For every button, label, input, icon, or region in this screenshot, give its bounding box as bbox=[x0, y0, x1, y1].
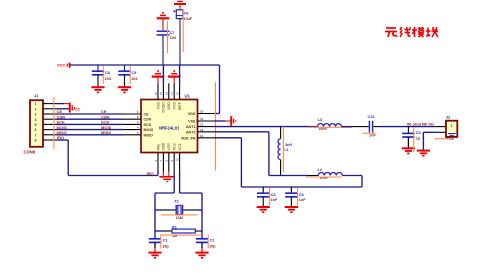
svg-text:1p: 1p bbox=[416, 137, 421, 141]
IC U1 top pin names bbox=[156, 101, 182, 112]
wire XC2 down bbox=[155, 172, 174, 239]
wire junction to L2 bbox=[269, 175, 318, 177]
svg-text:ANT2: ANT2 bbox=[186, 130, 196, 134]
svg-text:1: 1 bbox=[35, 102, 37, 106]
svg-text:VDD_PA: VDD_PA bbox=[181, 136, 196, 140]
IC U1 bottom pins bbox=[158, 153, 180, 172]
power port VCC (top pin VSS) bbox=[152, 71, 165, 83]
svg-text:16: 16 bbox=[175, 92, 179, 96]
svg-text:VDD: VDD bbox=[162, 142, 166, 150]
wire IRQ from connector bbox=[57, 140, 158, 176]
svg-text:R1: R1 bbox=[172, 226, 177, 230]
orange line at L2 bbox=[306, 176, 342, 178]
IC U1 top pins bbox=[158, 83, 180, 99]
svg-text:C8: C8 bbox=[105, 71, 110, 75]
orange line at L3 bbox=[309, 126, 352, 128]
power port VCC (C6) bbox=[174, 1, 186, 4]
capacitor C9 labels bbox=[131, 71, 138, 81]
wire top pin2 to rail bbox=[162, 65, 164, 83]
svg-text:MISO: MISO bbox=[144, 133, 154, 137]
svg-text:VDD: VDD bbox=[167, 102, 171, 110]
crystal Y1 designator bbox=[174, 199, 179, 203]
svg-text:MOSI: MOSI bbox=[144, 128, 153, 132]
svg-text:18: 18 bbox=[165, 92, 169, 96]
svg-text:L2: L2 bbox=[318, 168, 322, 172]
wire pin1 to VCC bbox=[57, 103, 70, 105]
IC U1 right pin names bbox=[181, 112, 196, 140]
wire VCC rail bbox=[70, 65, 220, 114]
capacitor C10 value bbox=[369, 133, 376, 137]
power label VCC (connector) bbox=[72, 107, 81, 112]
IC U1 bottom pin names bbox=[156, 142, 182, 150]
capacitor C2 bbox=[195, 239, 208, 258]
connector J2 designator bbox=[446, 114, 451, 119]
svg-text:VSS: VSS bbox=[173, 101, 177, 109]
svg-text:PCB: PCB bbox=[447, 137, 455, 141]
orange line at L1 bbox=[282, 127, 284, 172]
resistor R1 bbox=[155, 229, 202, 233]
orange line at C6 bbox=[182, 9, 184, 53]
connector J1 pins bbox=[44, 104, 58, 140]
svg-text:XC1: XC1 bbox=[178, 143, 182, 150]
capacitor C8 bbox=[91, 65, 104, 92]
wires connector to chip (CE CSN SCK MOSI MISO) bbox=[57, 114, 123, 135]
IC U1 part name NRF24L01 bbox=[159, 126, 180, 131]
orange line at C5 bbox=[297, 188, 299, 206]
IC U1 pin numbers bbox=[137, 92, 204, 162]
svg-text:J1: J1 bbox=[34, 93, 39, 98]
capacitor C5 bbox=[285, 187, 298, 212]
svg-text:1: 1 bbox=[450, 124, 452, 128]
svg-text:L1: L1 bbox=[284, 148, 288, 152]
title text 无线模块 bbox=[385, 27, 438, 37]
svg-text:IRQ: IRQ bbox=[147, 171, 154, 176]
svg-text:CON8: CON8 bbox=[24, 150, 36, 155]
IC U1 designator bbox=[185, 93, 191, 98]
connector J1 designator bbox=[34, 93, 39, 98]
orange line at C7 bbox=[167, 21, 169, 53]
svg-text:IREF: IREF bbox=[178, 101, 182, 110]
svg-text:DVDD: DVDD bbox=[162, 102, 166, 113]
orange line at C4 bbox=[269, 188, 271, 206]
inductor L3 value bbox=[319, 127, 328, 131]
connector J1 CON8 body bbox=[30, 100, 43, 147]
capacitor C9 bbox=[118, 65, 131, 92]
svg-text:14: 14 bbox=[200, 117, 204, 121]
capacitor C7 bbox=[157, 18, 170, 65]
svg-text:VDD: VDD bbox=[188, 112, 196, 116]
orange line at J2 bbox=[435, 138, 446, 141]
resistor R1 designator bbox=[172, 226, 177, 230]
wire VDD_PA bbox=[214, 138, 362, 187]
connector J1 comment CON8 bbox=[24, 150, 36, 155]
orange line at C9 bbox=[129, 66, 131, 84]
capacitor C3 labels bbox=[416, 131, 421, 140]
svg-text:16M: 16M bbox=[176, 216, 183, 220]
capacitor C5 labels bbox=[299, 193, 306, 202]
inductor L1 designator bbox=[284, 148, 288, 152]
inductor L3 designator bbox=[318, 118, 322, 122]
inductor L2 designator bbox=[318, 168, 322, 172]
svg-text:C10: C10 bbox=[368, 115, 375, 119]
wire VSS pin to VCC bbox=[214, 120, 230, 122]
power label VCC (rail) bbox=[57, 63, 66, 68]
svg-text:C7: C7 bbox=[170, 31, 175, 35]
orange line near connector bbox=[53, 97, 55, 149]
capacitor C2 labels bbox=[209, 238, 216, 248]
net label IRQ near chip bbox=[147, 171, 154, 176]
svg-text:C5: C5 bbox=[299, 193, 304, 197]
crystal Y1 bbox=[155, 205, 202, 215]
power port VCC (C7) bbox=[157, 13, 170, 18]
svg-text:C2: C2 bbox=[210, 238, 215, 242]
wire ANT2 bbox=[214, 132, 269, 176]
orange line at C8 bbox=[102, 66, 104, 84]
connector J2 antenna mark bbox=[448, 134, 456, 136]
svg-text:4: 4 bbox=[35, 118, 37, 122]
capacitor C8 labels bbox=[105, 71, 112, 81]
svg-text:20: 20 bbox=[154, 92, 158, 96]
svg-text:3: 3 bbox=[35, 113, 37, 117]
svg-text:VSS: VSS bbox=[188, 120, 196, 124]
svg-text:13: 13 bbox=[200, 123, 204, 127]
svg-text:2nH: 2nH bbox=[285, 143, 292, 147]
power port VCC (rail) bbox=[67, 63, 69, 68]
orange line under resistor bbox=[160, 234, 202, 236]
svg-text:8: 8 bbox=[35, 139, 37, 143]
svg-text:10uF: 10uF bbox=[184, 17, 193, 21]
svg-text:15p: 15p bbox=[209, 244, 216, 248]
svg-text:10: 10 bbox=[175, 158, 179, 162]
wire ANT1 bbox=[214, 126, 318, 128]
wire J2 pin2 to ground bbox=[423, 132, 446, 150]
connector J2 body bbox=[446, 121, 457, 137]
capacitor C1 bbox=[148, 239, 161, 258]
inductor L2 bbox=[318, 173, 342, 176]
svg-text:VCC: VCC bbox=[57, 63, 66, 68]
svg-text:6: 6 bbox=[35, 128, 37, 132]
svg-text:C9: C9 bbox=[132, 71, 137, 75]
ground (J2) bbox=[417, 151, 430, 156]
svg-text:VCC: VCC bbox=[72, 107, 81, 112]
svg-text:CE: CE bbox=[144, 113, 150, 117]
capacitor C6 labels bbox=[184, 12, 193, 21]
svg-text:NRF24L01: NRF24L01 bbox=[159, 126, 180, 131]
orange line at C3 bbox=[413, 128, 415, 152]
net labels near chip bbox=[101, 109, 111, 135]
capacitor C7 labels bbox=[170, 31, 177, 40]
power port VCC (connector) bbox=[70, 103, 75, 113]
orange line under crystal bbox=[162, 214, 198, 216]
svg-text:L3: L3 bbox=[318, 118, 322, 122]
inductor L1 value 2nH bbox=[285, 143, 292, 147]
svg-text:5: 5 bbox=[35, 123, 37, 127]
connector J2 comment PCB bbox=[447, 137, 455, 141]
capacitor C10 series bbox=[369, 121, 372, 133]
svg-text:15p: 15p bbox=[162, 244, 169, 248]
net label 50 ohm RF I/O bbox=[407, 121, 434, 126]
svg-text:IRQ: IRQ bbox=[156, 144, 160, 151]
svg-text:19: 19 bbox=[159, 92, 163, 96]
capacitor C1 labels bbox=[162, 238, 169, 248]
IC U1 left pin names bbox=[144, 113, 154, 138]
svg-text:2: 2 bbox=[35, 107, 37, 111]
IC U1 right pins bbox=[198, 114, 215, 138]
orange line at C10 bbox=[362, 132, 375, 134]
svg-text:CSN: CSN bbox=[144, 118, 152, 122]
svg-text:SCK: SCK bbox=[144, 123, 152, 127]
svg-text:VSS: VSS bbox=[156, 101, 160, 109]
svg-text:104: 104 bbox=[105, 77, 112, 81]
wire L2 to corner bbox=[342, 175, 362, 177]
ground (C3) bbox=[402, 148, 415, 153]
svg-text:C3: C3 bbox=[416, 131, 421, 135]
svg-text:104: 104 bbox=[131, 77, 138, 81]
svg-text:C1: C1 bbox=[163, 238, 168, 242]
IC U1 NRF24L01 body bbox=[141, 100, 198, 153]
connector J1 pin numbers 1-8 bbox=[35, 102, 37, 142]
svg-text:12: 12 bbox=[200, 128, 204, 132]
wire XC1 down bbox=[180, 172, 202, 239]
svg-text:J2: J2 bbox=[446, 114, 451, 119]
svg-text:17: 17 bbox=[170, 92, 174, 96]
crystal Y1 value bbox=[176, 216, 183, 220]
inductor L1 vertical bbox=[278, 127, 281, 176]
orange line right of chip bbox=[215, 82, 217, 171]
power port VCC (right) bbox=[231, 116, 236, 126]
IC U1 left pins bbox=[123, 114, 141, 135]
svg-text:1nF: 1nF bbox=[369, 133, 376, 137]
svg-text:MISO: MISO bbox=[101, 130, 111, 135]
svg-text:XC2: XC2 bbox=[173, 143, 177, 150]
svg-text:1nF: 1nF bbox=[299, 198, 306, 202]
net labels near connector bbox=[57, 109, 67, 135]
inductor L2 value bbox=[319, 176, 328, 180]
svg-text:104: 104 bbox=[170, 36, 177, 40]
svg-text:50 ohm RF I/O: 50 ohm RF I/O bbox=[407, 121, 434, 126]
svg-text:ANT1: ANT1 bbox=[186, 125, 196, 129]
svg-text:C6: C6 bbox=[184, 12, 189, 16]
resistor R1 value bbox=[172, 234, 177, 238]
capacitor C10 designator bbox=[368, 115, 375, 119]
svg-text:1nF: 1nF bbox=[271, 198, 278, 202]
svg-text:U1: U1 bbox=[185, 93, 191, 98]
capacitor C4 bbox=[257, 187, 270, 212]
power port VCC (top pin VSS 2) bbox=[168, 71, 181, 83]
capacitor C4 labels bbox=[271, 193, 278, 202]
inductor L3 bbox=[318, 124, 342, 127]
connector J2 pin 1 number bbox=[450, 124, 452, 128]
svg-text:10nH: 10nH bbox=[319, 176, 328, 180]
orange line at C1 bbox=[160, 235, 162, 249]
svg-text:7: 7 bbox=[35, 133, 37, 137]
svg-text:11: 11 bbox=[200, 134, 204, 138]
svg-text:15: 15 bbox=[200, 110, 204, 114]
wire L3 to C10 bbox=[342, 126, 369, 128]
svg-text:X1: X1 bbox=[174, 199, 179, 203]
svg-text:VSS: VSS bbox=[167, 143, 171, 151]
wire pin2 to VCC bbox=[57, 108, 70, 110]
ground (chip VSS) bbox=[159, 172, 173, 182]
wire C10 to J2 bbox=[373, 126, 446, 128]
wire top pin5 to rail bbox=[179, 65, 181, 83]
capacitor C3 bbox=[402, 127, 414, 148]
capacitor C6 electrolytic bbox=[173, 4, 183, 65]
orange line at C2 bbox=[207, 235, 209, 249]
net label IRQ near connector bbox=[57, 135, 64, 140]
